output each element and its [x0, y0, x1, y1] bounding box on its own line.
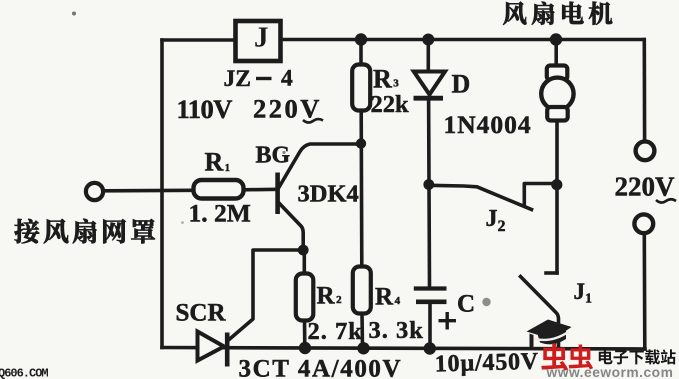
wire: diode to capacitor / J2 node [427, 100, 431, 287]
motor top brush [547, 66, 568, 81]
ink smudge near C [482, 298, 490, 306]
svg-text:Q606.COM: Q606.COM [0, 367, 48, 379]
node: R3 top on rail [355, 33, 367, 45]
wire: R3 top [359, 40, 363, 66]
capacitor C top plate [414, 286, 447, 290]
svg-text:220V: 220V [253, 94, 322, 124]
wire: rail to motor [554, 40, 558, 67]
svg-text:SCR: SCR [176, 300, 227, 327]
node: R4 on bottom rail [357, 342, 369, 354]
svg-text:www.eeworm.com: www.eeworm.com [546, 365, 674, 379]
svg-text:10µ/450V: 10µ/450V [434, 349, 539, 378]
J1 fixed contact foot [546, 271, 557, 275]
svg-text:4: 4 [281, 66, 293, 92]
label fan motor 风扇电机 [503, 2, 612, 25]
transistor BG base bar [275, 173, 280, 215]
SCR anode triangle [198, 332, 225, 361]
wire: bottom rail [162, 348, 645, 350]
svg-text:2. 7k: 2. 7k [308, 318, 363, 345]
relay contact J1 arm [521, 277, 559, 350]
wire: right drop to top 220V terminal [642, 40, 646, 142]
resistor R1 body [194, 180, 244, 199]
motor bottom brush [547, 107, 568, 121]
SCR cathode bar [225, 333, 230, 367]
wire: gate run from emitter node to SCR gate [228, 250, 303, 341]
logo 虫虫 red [541, 343, 593, 370]
svg-text:J: J [254, 22, 269, 54]
svg-text:3. 3k: 3. 3k [369, 317, 424, 344]
input terminal (touch plate) [86, 183, 103, 200]
svg-text:3CT 4A/400V: 3CT 4A/400V [239, 356, 403, 379]
relay coil box J [236, 21, 281, 61]
node: R2 on bottom rail [299, 342, 311, 354]
terminal: 220V bottom [634, 214, 653, 233]
wire: left vertical rail [160, 40, 164, 348]
node: J2 fixed / motor line [551, 179, 562, 190]
svg-text:22k: 22k [371, 91, 410, 118]
node: C on bottom rail [424, 342, 436, 354]
relay contact J2 arm [429, 185, 532, 209]
capacitor polarity plus [439, 312, 457, 330]
label touch fan guard 接风扇网罩 [14, 219, 155, 244]
resistor R3 body [352, 65, 370, 111]
svg-text:3DK4: 3DK4 [298, 181, 359, 208]
label JZ-4 dash [256, 77, 272, 80]
dust speck top-left [72, 12, 76, 16]
diode D cathode bar [414, 96, 444, 101]
motor body circle [541, 78, 573, 110]
svg-text:BG: BG [256, 143, 291, 169]
wire: right riser from bottom rail to bottom 220V terminal [642, 233, 646, 349]
transistor BG collector lead [279, 144, 362, 188]
wire: R3 bottom to R4 top [359, 111, 363, 268]
logo graduation cap [527, 320, 572, 349]
wire: R2 bottom [303, 321, 307, 349]
svg-text:1. 2M: 1. 2M [189, 199, 251, 228]
resistor R4 body [353, 267, 371, 314]
wire: top rail right of relay box [279, 38, 644, 42]
wire: top rail to diode D [426, 40, 430, 73]
svg-text:110V: 110V [177, 94, 233, 124]
dust speck near BG [282, 151, 285, 154]
resistor R2 body [296, 274, 314, 321]
svg-text:1N4004: 1N4004 [444, 110, 532, 139]
svg-text:220V: 220V [615, 172, 676, 202]
logo 电子下载站 [599, 349, 676, 364]
wire: R1 to BG base [244, 188, 277, 192]
underline squiggle under 220V (relay) [303, 119, 323, 122]
terminal: 220V top [636, 141, 655, 160]
node: D top on rail [422, 34, 434, 46]
svg-text:D: D [452, 70, 471, 99]
wire: R4 bottom [360, 314, 364, 349]
svg-text:JZ: JZ [224, 66, 251, 92]
node: collector / R3-R4 junction [356, 138, 366, 148]
diode D triangle [414, 72, 445, 95]
wire: emitter node to R2 [302, 250, 306, 274]
relay contact J2 fixed L [524, 184, 556, 205]
wire: capacitor to bottom rail [428, 302, 432, 349]
dust speck near 1.2M [181, 221, 184, 224]
wire: top rail left of relay box [162, 38, 236, 42]
wire: motor to J1 fixed contact [555, 121, 559, 274]
underline squiggle under 220V (source) [656, 199, 676, 202]
wire: terminal to R1 [103, 189, 194, 193]
node: motor top on rail [550, 33, 562, 45]
node: D / J2 / C junction [423, 179, 434, 190]
transistor BG emitter lead [279, 203, 304, 251]
capacitor C bottom plate [416, 299, 447, 304]
node: emitter junction [298, 245, 309, 256]
svg-text:C: C [457, 291, 475, 318]
